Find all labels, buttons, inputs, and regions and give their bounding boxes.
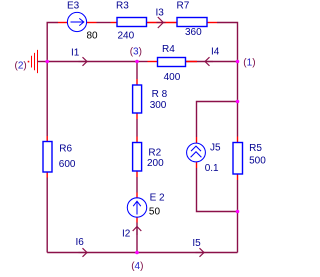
svg-text:J5: J5: [210, 143, 221, 154]
resistor R3: [111, 18, 178, 27]
wire battery stub to node 2: [38, 61, 48, 63]
current arrow I3: [157, 17, 166, 28]
svg-text:80: 80: [87, 31, 99, 42]
svg-text:R5: R5: [249, 143, 262, 154]
wire middle node3 to R8: [136, 62, 138, 80]
svg-text:(2): (2): [15, 60, 27, 71]
wire middle E2 to bottom: [136, 223, 138, 253]
svg-text:E 2: E 2: [150, 192, 165, 203]
current arrow I2: [133, 227, 142, 236]
svg-text:R6: R6: [59, 144, 72, 155]
resistor R8: [133, 79, 142, 119]
svg-text:I3: I3: [156, 7, 165, 18]
wire left vertical R6 to bottom: [46, 178, 48, 253]
junction node 1: [236, 60, 240, 64]
current arrow I5: [196, 248, 205, 257]
svg-text:R3: R3: [116, 1, 129, 12]
resistor R5: [233, 137, 243, 181]
svg-text:R2: R2: [148, 148, 161, 159]
current arrow I6: [79, 248, 88, 257]
voltage source E2: [127, 193, 146, 223]
resistor R7: [177, 18, 217, 27]
svg-text:R 8: R 8: [152, 89, 168, 100]
wire R4 to node1: [186, 61, 238, 63]
svg-text:(4): (4): [131, 261, 143, 272]
wire between E3 and R3: [97, 22, 111, 24]
junction node 2: [45, 60, 49, 64]
wire top-right corner down to node 1: [217, 23, 238, 62]
current source J5: [187, 137, 206, 168]
current arrow I4: [205, 57, 213, 66]
wire middle R8 to R2: [136, 119, 138, 137]
svg-text:360: 360: [185, 27, 202, 38]
wire right vertical loop bottom to bottom wire: [237, 212, 239, 253]
wire node2 to node3 horizontal: [47, 61, 137, 63]
resistor R4: [148, 58, 198, 67]
wire middle R2 to E2: [136, 177, 138, 193]
svg-text:0.1: 0.1: [205, 163, 219, 174]
wire right vertical loop top to R5: [237, 102, 239, 137]
voltage source E3: [58, 12, 97, 31]
svg-text:I5: I5: [192, 238, 201, 249]
wire node3 to R4: [137, 61, 148, 63]
svg-text:50: 50: [149, 207, 161, 218]
wire left vertical node2 to R6: [46, 62, 48, 137]
wire top-left corner to node 2: [47, 23, 58, 62]
junction loop bottom: [236, 210, 240, 214]
wire J5 branch bottom: [197, 168, 238, 212]
svg-text:R7: R7: [177, 1, 190, 12]
svg-text:300: 300: [150, 100, 167, 111]
junction node 3: [135, 60, 139, 64]
svg-text:E3: E3: [67, 1, 80, 12]
wire J5 branch top: [197, 102, 238, 138]
svg-text:400: 400: [164, 72, 181, 83]
svg-text:(3): (3): [130, 46, 142, 57]
battery symbol at node 2: [28, 50, 38, 73]
wire right vertical node1 to node at loop top: [237, 62, 239, 102]
svg-text:500: 500: [249, 155, 266, 166]
resistor R2: [133, 137, 142, 178]
wire bottom horizontal: [47, 252, 237, 254]
wire right vertical R5 to loop bottom: [237, 180, 239, 212]
svg-text:I1: I1: [71, 48, 80, 59]
junction node 4: [135, 251, 139, 255]
svg-text:I2: I2: [122, 228, 131, 239]
svg-text:240: 240: [118, 30, 135, 41]
svg-text:200: 200: [147, 158, 164, 169]
resistor R6: [43, 136, 52, 178]
current arrow I1: [79, 57, 88, 66]
svg-text:I4: I4: [211, 46, 220, 57]
svg-text:R4: R4: [162, 44, 175, 55]
svg-text:(1): (1): [243, 58, 255, 69]
svg-text:I6: I6: [76, 237, 85, 248]
junction loop top: [236, 100, 240, 104]
svg-text:600: 600: [59, 159, 76, 170]
